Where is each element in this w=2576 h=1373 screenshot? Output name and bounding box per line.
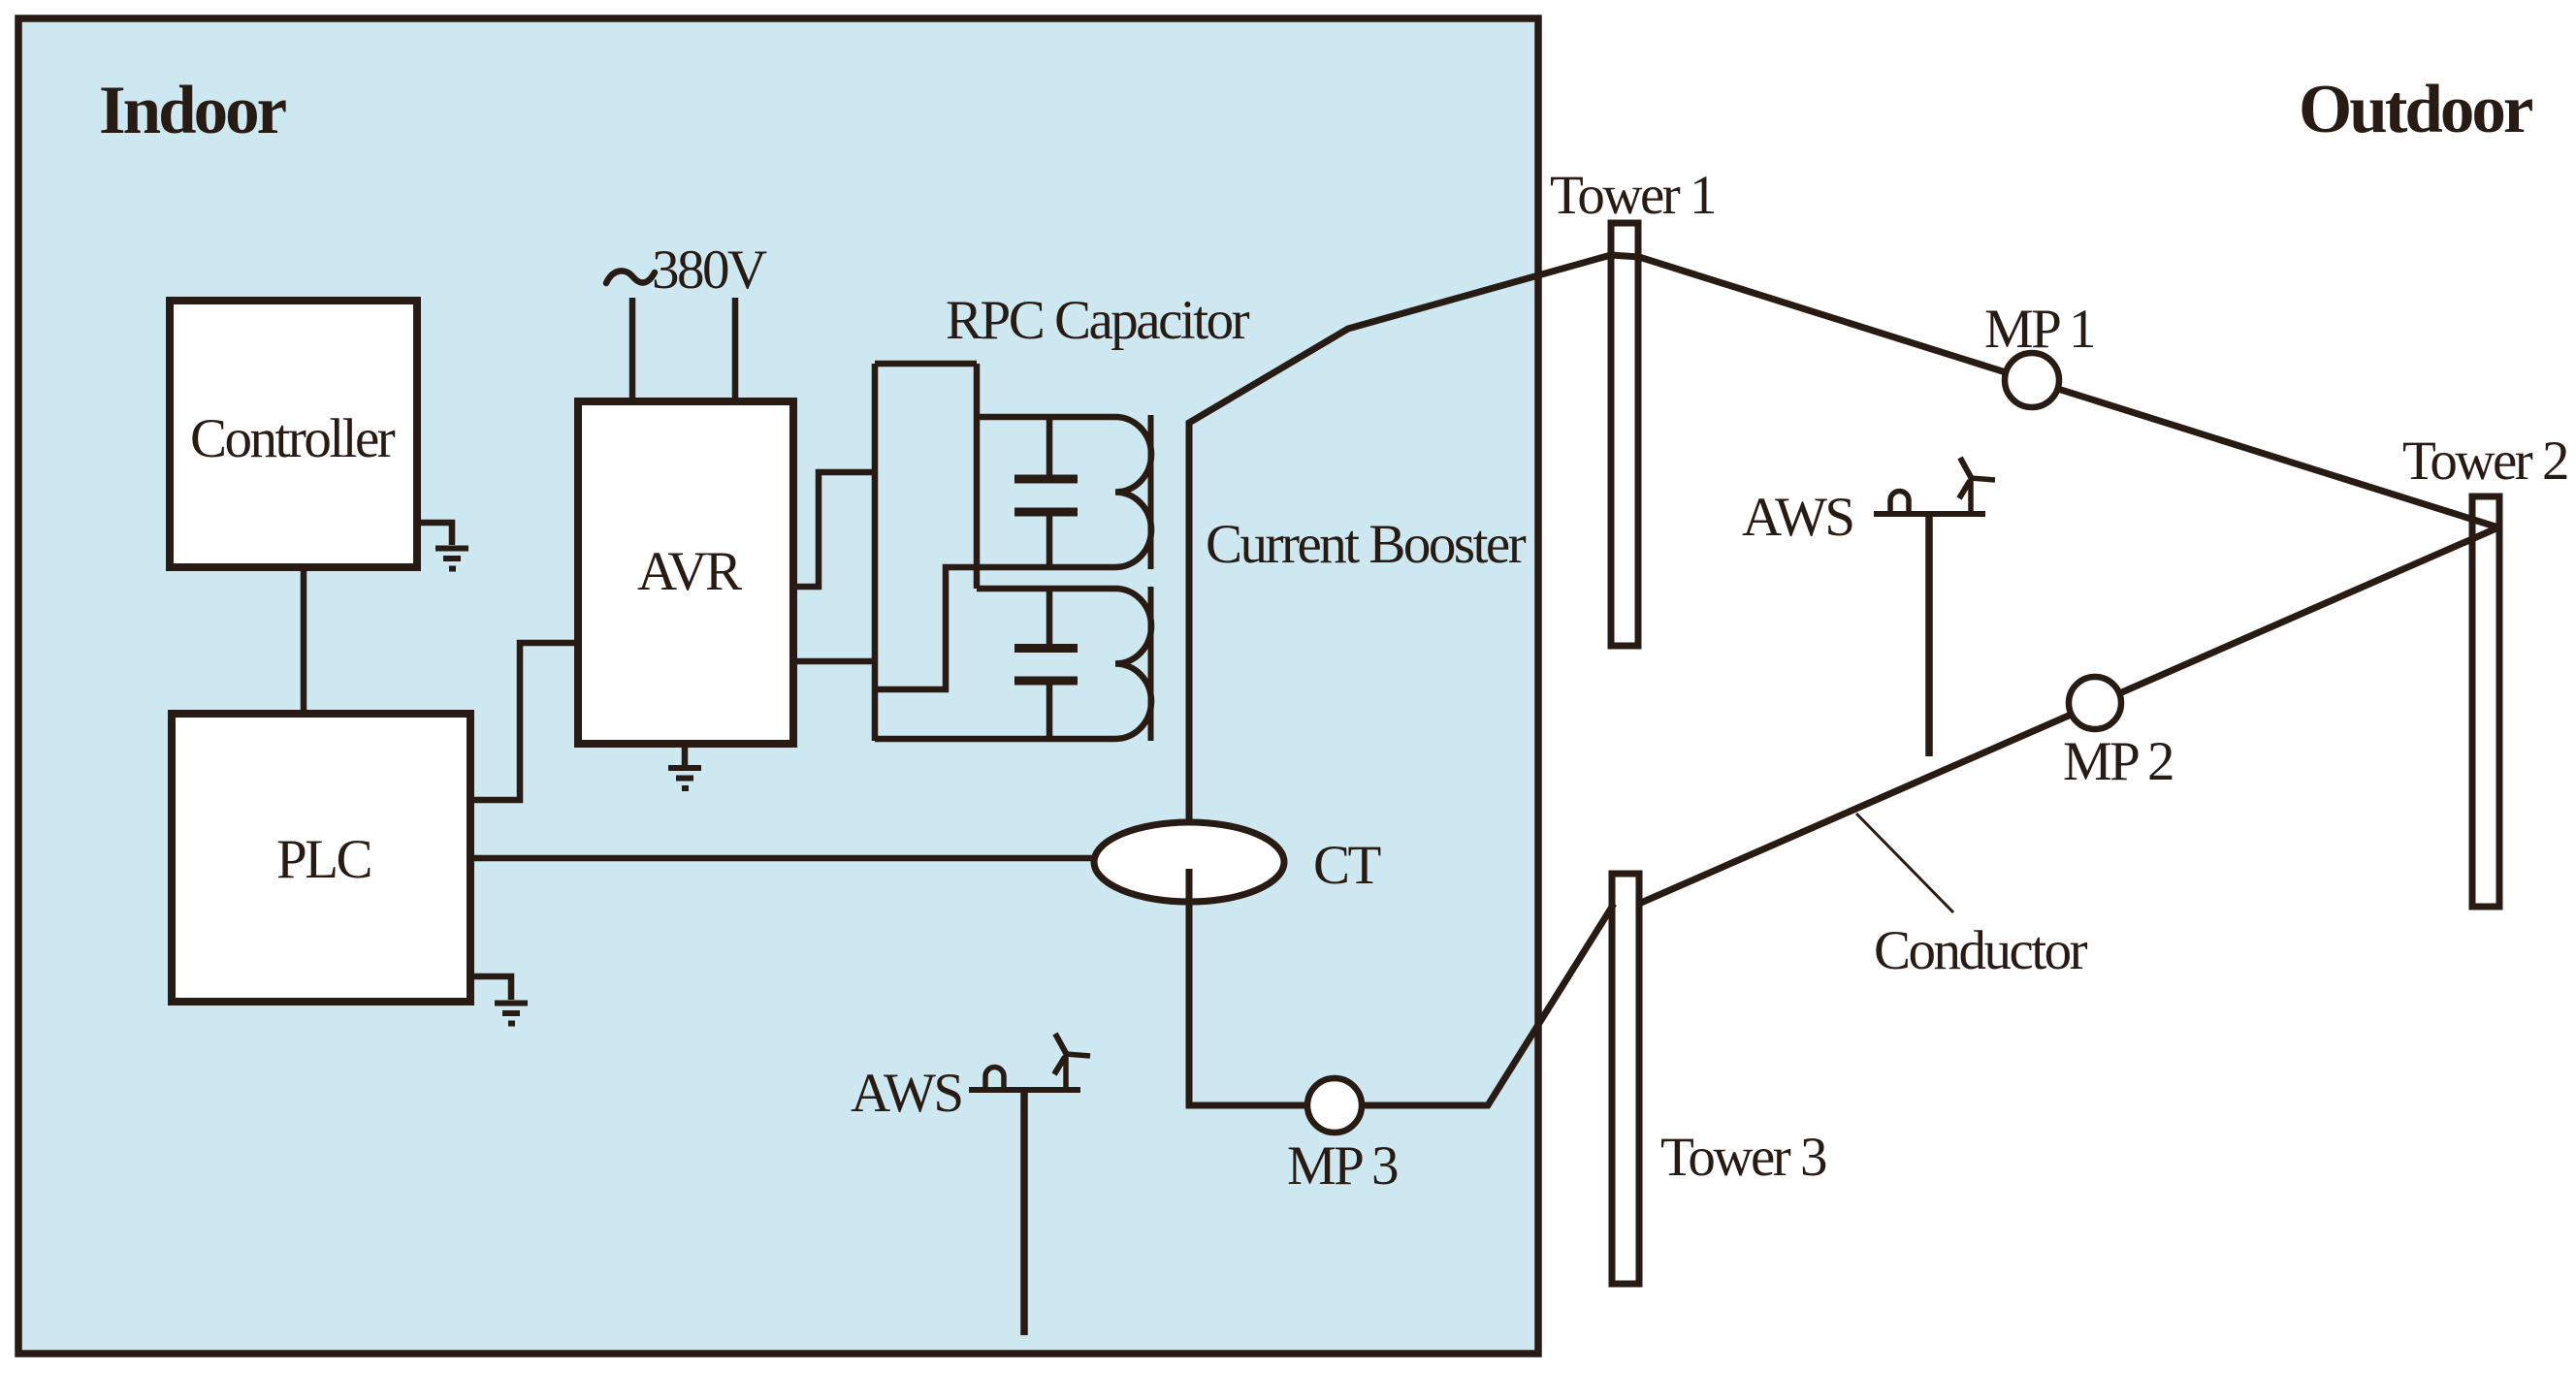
- wire booster rail (secondary): [1189, 255, 1639, 822]
- AWS station (indoor): [969, 1034, 1090, 1335]
- wire upper capacitor bottom lead: [1046, 516, 1053, 567]
- node MP3: [1307, 1078, 1362, 1133]
- svg-text:Tower 3: Tower 3: [1660, 1127, 1826, 1188]
- svg-text:CT: CT: [1313, 835, 1381, 896]
- leader line Conductor: [1856, 814, 1953, 912]
- svg-text:380V: 380V: [652, 239, 767, 301]
- indoor area box: [18, 18, 1538, 1354]
- svg-text:MP 1: MP 1: [1984, 299, 2094, 360]
- wire upper capacitor top lead: [1046, 417, 1053, 475]
- wire AVR ground stem: [682, 744, 689, 765]
- svg-text:Indoor: Indoor: [99, 73, 286, 148]
- wire AVR upper output: [793, 472, 875, 587]
- ground (PLC): [495, 1004, 528, 1024]
- wire Controller to PLC: [301, 567, 307, 714]
- tower 1: [1611, 223, 1638, 646]
- wire upper branch bottom: [875, 567, 1115, 689]
- wire PLC ground stub: [470, 976, 511, 1000]
- wire PLC to AVR: [470, 643, 578, 800]
- wire PLC to CT: [470, 855, 1094, 862]
- CT ellipse: [1094, 822, 1284, 902]
- wire lower branch top: [977, 586, 1115, 592]
- node MP1: [2005, 353, 2059, 407]
- capacitor C1 plates: [1014, 479, 1078, 512]
- svg-text:Current Booster: Current Booster: [1206, 514, 1527, 575]
- transformer core (lower): [1148, 587, 1154, 741]
- wire RPC left riser: [872, 364, 879, 741]
- wire 380V right feed: [732, 298, 739, 401]
- box PLC: [172, 714, 470, 1002]
- box Controller: [170, 301, 417, 567]
- node MP2: [2069, 677, 2121, 729]
- wire conductor Tower2 to Tower3: [1641, 527, 2498, 903]
- svg-text:AWS: AWS: [1742, 487, 1853, 548]
- inductor L2 (lower booster primary): [1115, 589, 1151, 739]
- AWS station (outdoor): [1874, 458, 1995, 756]
- wire lower branch bottom: [875, 736, 1115, 743]
- tower 3: [1612, 874, 1639, 1284]
- wire lower capacitor bottom lead: [1046, 685, 1053, 739]
- svg-text:Outdoor: Outdoor: [2299, 72, 2532, 147]
- capacitor C2 plates: [1014, 649, 1078, 682]
- ground (AVR): [668, 768, 701, 788]
- transformer core (upper): [1148, 415, 1154, 569]
- svg-text:RPC Capacitor: RPC Capacitor: [946, 290, 1250, 351]
- ground (Controller): [435, 549, 468, 569]
- wire AVR lower output: [793, 658, 875, 665]
- svg-text:MP 3: MP 3: [1287, 1135, 1398, 1197]
- wire upper branch top: [977, 414, 1115, 421]
- wire 380V left feed: [629, 298, 636, 401]
- svg-text:Tower 2: Tower 2: [2402, 431, 2567, 492]
- wire Controller ground stub: [417, 523, 452, 545]
- wire CT inner drop: [1186, 869, 1193, 1105]
- svg-text:AVR: AVR: [637, 541, 742, 602]
- svg-text:Tower 1: Tower 1: [1550, 165, 1715, 226]
- svg-text:PLC: PLC: [276, 829, 370, 890]
- svg-text:Controller: Controller: [190, 408, 396, 469]
- value label ~380V: [606, 271, 655, 283]
- svg-text:AWS: AWS: [851, 1063, 962, 1124]
- wire Tower3 drop to MP3 run: [1189, 869, 1614, 1105]
- inductor L1 (upper booster primary): [1115, 417, 1151, 567]
- wire RPC right riser: [974, 364, 981, 589]
- wire lower capacitor top lead: [1046, 589, 1053, 644]
- tower 2: [2472, 496, 2499, 907]
- wire RPC top link: [875, 361, 977, 367]
- svg-text:Conductor: Conductor: [1874, 920, 2088, 981]
- svg-text:MP 2: MP 2: [2063, 731, 2173, 792]
- box AVR: [578, 401, 793, 744]
- wire conductor Tower1 to Tower2: [1639, 257, 2498, 527]
